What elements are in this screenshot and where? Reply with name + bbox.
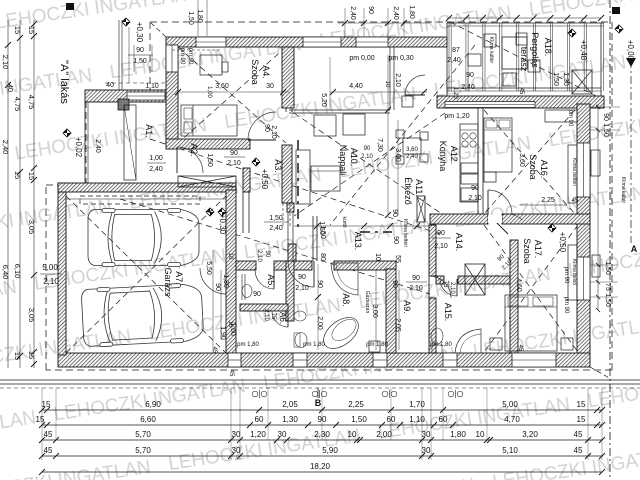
svg-text:3,05: 3,05 (27, 220, 36, 235)
svg-text:45: 45 (572, 198, 579, 204)
svg-text:10: 10 (227, 253, 233, 260)
svg-text:90: 90 (214, 283, 221, 291)
svg-text:Klíma beltéri: Klíma beltéri (571, 158, 577, 186)
svg-text:90: 90 (263, 124, 270, 132)
svg-text:90: 90 (230, 150, 238, 157)
svg-text:30: 30 (422, 446, 431, 455)
svg-text:2,40: 2,40 (461, 84, 475, 91)
svg-text:2,30: 2,30 (314, 430, 330, 439)
svg-text:90: 90 (391, 209, 398, 217)
svg-text:90: 90 (264, 251, 270, 258)
svg-text:1,00: 1,00 (206, 86, 212, 98)
svg-text:1,50: 1,50 (604, 293, 611, 307)
svg-text:pm 90: pm 90 (563, 267, 569, 284)
svg-text:1,00: 1,00 (149, 155, 163, 162)
svg-text:1,60: 1,60 (229, 322, 236, 336)
svg-text:Klíma kültér: Klíma kültér (620, 177, 626, 204)
svg-text:30: 30 (232, 446, 241, 455)
svg-text:75: 75 (270, 313, 276, 320)
svg-text:pm 90: pm 90 (179, 48, 185, 65)
svg-text:5,90: 5,90 (322, 446, 338, 455)
svg-text:90: 90 (318, 415, 327, 424)
svg-text:Klíma belső: Klíma belső (571, 259, 577, 285)
svg-text:15: 15 (27, 172, 36, 180)
svg-text:1,10: 1,10 (145, 83, 159, 90)
svg-text:2,10: 2,10 (449, 282, 455, 294)
svg-text:90: 90 (253, 291, 261, 298)
svg-text:30: 30 (278, 430, 287, 439)
svg-text:5,50: 5,50 (205, 261, 212, 275)
svg-text:1,50: 1,50 (604, 261, 611, 275)
svg-text:2,10: 2,10 (295, 285, 309, 292)
svg-text:Szoba: Szoba (528, 154, 538, 180)
svg-text:1,50: 1,50 (318, 221, 325, 235)
svg-text:Szoba: Szoba (250, 59, 260, 85)
svg-text:2,40: 2,40 (94, 139, 101, 153)
svg-text:5,00: 5,00 (502, 400, 518, 409)
svg-text:A: A (631, 244, 638, 254)
svg-text:+0,30: +0,30 (135, 22, 144, 43)
svg-text:10: 10 (384, 81, 390, 88)
svg-text:Pergolás: Pergolás (530, 32, 540, 68)
svg-text:2,10: 2,10 (361, 154, 373, 160)
svg-text:A6.: A6. (278, 312, 287, 324)
svg-text:2,10: 2,10 (43, 277, 59, 286)
svg-text:5,70: 5,70 (135, 446, 151, 455)
svg-text:A15.: A15. (443, 303, 453, 322)
svg-text:+0,30: +0,30 (218, 214, 227, 235)
svg-text:2,10: 2,10 (409, 285, 423, 292)
svg-text:2,05: 2,05 (394, 318, 401, 332)
svg-text:6,10: 6,10 (13, 264, 22, 279)
svg-text:90: 90 (412, 275, 420, 282)
svg-text:75: 75 (604, 283, 611, 291)
svg-text:7,30: 7,30 (376, 138, 383, 152)
svg-text:45: 45 (44, 430, 53, 439)
svg-text:90: 90 (437, 230, 445, 237)
svg-text:Étkező: Étkező (403, 177, 413, 205)
svg-text:terasz: terasz (519, 47, 529, 72)
svg-text:18,20: 18,20 (310, 462, 331, 471)
svg-text:45: 45 (211, 347, 217, 354)
svg-text:1,50: 1,50 (187, 11, 194, 25)
svg-text:3,60: 3,60 (406, 147, 418, 153)
svg-text:15: 15 (577, 415, 586, 424)
svg-text:2,40: 2,40 (149, 166, 163, 173)
svg-text:10: 10 (374, 253, 381, 261)
svg-text:pm 1,20: pm 1,20 (444, 113, 469, 120)
svg-text:5,20: 5,20 (320, 93, 327, 107)
svg-text:1,90: 1,90 (219, 326, 226, 340)
svg-text:A2.: A2. (189, 143, 199, 157)
svg-text:45: 45 (518, 88, 524, 95)
svg-text:3,20: 3,20 (522, 430, 538, 439)
svg-text:15: 15 (13, 26, 22, 34)
svg-text:2,10: 2,10 (1, 55, 10, 70)
svg-text:Szoba: Szoba (522, 238, 532, 264)
svg-text:60: 60 (439, 415, 448, 424)
svg-text:1,50: 1,50 (133, 58, 147, 65)
svg-text:1,30: 1,30 (282, 415, 298, 424)
svg-text:5,00: 5,00 (42, 263, 58, 272)
svg-text:2,25: 2,25 (541, 197, 555, 204)
svg-text:2,40: 2,40 (447, 57, 461, 64)
svg-text:1,50: 1,50 (269, 215, 283, 222)
svg-text:A11.: A11. (414, 179, 424, 197)
svg-text:80: 80 (319, 253, 326, 261)
svg-text:2,40: 2,40 (1, 140, 10, 155)
svg-text:30: 30 (422, 430, 431, 439)
svg-text:3,60: 3,60 (215, 83, 229, 90)
svg-text:3,00: 3,00 (371, 304, 378, 318)
svg-text:15: 15 (27, 351, 36, 359)
svg-text:2,40: 2,40 (349, 6, 356, 20)
svg-text:2,10: 2,10 (468, 195, 482, 202)
svg-text:A14.: A14. (454, 233, 464, 252)
svg-text:87: 87 (452, 47, 460, 54)
svg-text:2,10: 2,10 (256, 250, 262, 262)
svg-text:90: 90 (602, 113, 609, 121)
svg-text:A17.: A17. (533, 240, 543, 259)
svg-text:15: 15 (42, 400, 51, 409)
svg-text:45: 45 (44, 446, 53, 455)
svg-text:pm 1,80: pm 1,80 (366, 342, 388, 348)
svg-text:A4.: A4. (261, 65, 271, 79)
svg-text:pm 90: pm 90 (187, 48, 193, 65)
svg-text:1,70: 1,70 (409, 400, 425, 409)
svg-text:15: 15 (27, 26, 36, 34)
svg-text:3,05: 3,05 (27, 308, 36, 323)
svg-text:1,50: 1,50 (351, 415, 367, 424)
svg-text:90: 90 (471, 185, 479, 192)
svg-text:5,10: 5,10 (502, 446, 518, 455)
svg-text:90: 90 (298, 274, 306, 281)
svg-text:90: 90 (466, 72, 474, 79)
svg-text:pm 1,80: pm 1,80 (237, 342, 259, 348)
svg-text:1,80: 1,80 (408, 5, 415, 19)
svg-text:6,40: 6,40 (1, 265, 10, 280)
svg-text:45: 45 (574, 430, 583, 439)
svg-text:45: 45 (517, 345, 523, 352)
svg-text:1,10: 1,10 (409, 415, 425, 424)
svg-text:3,60: 3,60 (518, 153, 525, 167)
svg-text:4,60: 4,60 (515, 278, 522, 292)
svg-text:60: 60 (255, 415, 264, 424)
svg-text:1,30: 1,30 (562, 72, 569, 86)
svg-text:10: 10 (348, 430, 357, 439)
svg-text:Gázkazán: Gázkazán (364, 291, 370, 314)
svg-text:90: 90 (316, 280, 323, 288)
svg-text:1,20: 1,20 (452, 87, 458, 99)
svg-text:4,40: 4,40 (349, 83, 363, 90)
svg-text:Konyha: Konyha (438, 141, 448, 172)
svg-text:A1.: A1. (144, 124, 154, 138)
svg-text:+0,00: +0,00 (626, 40, 635, 61)
svg-text:Garázs: Garázs (163, 267, 173, 297)
svg-text:2,05: 2,05 (282, 400, 298, 409)
svg-text:1,80: 1,80 (450, 430, 466, 439)
svg-text:4,75: 4,75 (13, 97, 22, 112)
svg-text:A18.: A18. (543, 38, 553, 57)
svg-text:+0,50: +0,50 (558, 232, 567, 253)
svg-text:15: 15 (13, 352, 22, 360)
svg-text:pm 1,80: pm 1,80 (303, 342, 325, 348)
svg-text:kürtő: kürtő (341, 216, 347, 227)
svg-text:5,70: 5,70 (135, 430, 151, 439)
svg-text:2,10: 2,10 (263, 309, 269, 321)
svg-text:A3.: A3. (273, 159, 283, 173)
svg-text:2,10: 2,10 (270, 125, 277, 139)
svg-text:A10.: A10. (349, 148, 359, 167)
svg-text:B: B (315, 398, 322, 408)
svg-text:1,50: 1,50 (206, 153, 213, 167)
svg-text:A13.: A13. (353, 232, 363, 251)
svg-text:90: 90 (391, 280, 398, 288)
svg-text:90: 90 (364, 146, 371, 152)
svg-text:2,25: 2,25 (348, 400, 364, 409)
svg-text:6,90: 6,90 (145, 400, 161, 409)
svg-text:15: 15 (13, 171, 22, 179)
svg-text:90: 90 (136, 47, 144, 54)
svg-text:1,20: 1,20 (250, 430, 266, 439)
svg-text:A5.: A5. (266, 274, 276, 288)
svg-text:75: 75 (442, 281, 448, 288)
svg-text:45: 45 (574, 446, 583, 455)
svg-text:15: 15 (36, 415, 45, 424)
svg-text:pm 0,00: pm 0,00 (349, 55, 374, 62)
svg-text:4,75: 4,75 (27, 95, 36, 110)
svg-text:"A" lakás: "A" lakás (58, 60, 70, 104)
svg-text:6,60: 6,60 (140, 415, 156, 424)
svg-text:90: 90 (392, 236, 399, 244)
svg-text:60: 60 (387, 415, 396, 424)
svg-text:3,00: 3,00 (394, 148, 401, 162)
svg-text:15: 15 (577, 400, 586, 409)
svg-text:pm 90: pm 90 (567, 110, 573, 127)
svg-text:2,10: 2,10 (394, 73, 401, 87)
svg-text:Klíma beltéri: Klíma beltéri (402, 219, 408, 247)
svg-text:A8.: A8. (341, 293, 351, 307)
svg-text:2,40: 2,40 (269, 225, 283, 232)
svg-text:40: 40 (6, 84, 13, 92)
svg-text:A12.: A12. (449, 146, 459, 165)
svg-text:1,50: 1,50 (552, 72, 559, 86)
svg-text:pm 90: pm 90 (563, 297, 569, 314)
svg-text:2,00: 2,00 (376, 430, 392, 439)
svg-text:2,10: 2,10 (434, 243, 448, 250)
svg-text:+0,48: +0,48 (579, 40, 588, 61)
svg-text:2,10: 2,10 (227, 160, 241, 167)
svg-text:pm 0,30: pm 0,30 (388, 55, 413, 62)
svg-text:2,00: 2,00 (316, 316, 323, 330)
svg-text:10: 10 (476, 430, 485, 439)
svg-text:+0,02: +0,02 (74, 137, 83, 158)
svg-text:Nappali: Nappali (338, 145, 348, 176)
svg-text:30: 30 (232, 430, 241, 439)
svg-text:45: 45 (228, 370, 234, 377)
svg-text:2,40: 2,40 (392, 6, 399, 20)
svg-text:A9.: A9. (402, 300, 412, 314)
svg-text:2,40: 2,40 (406, 154, 418, 160)
svg-text:A16.: A16. (539, 160, 549, 179)
svg-text:A7.: A7. (174, 271, 184, 285)
svg-text:4,70: 4,70 (504, 415, 520, 424)
svg-text:pm 1,80: pm 1,80 (430, 342, 452, 348)
svg-text:30: 30 (266, 83, 274, 90)
svg-text:1,30: 1,30 (222, 274, 229, 288)
svg-text:1,80: 1,80 (196, 9, 203, 23)
svg-text:90: 90 (367, 6, 374, 14)
svg-text:+0,50: +0,50 (260, 169, 269, 190)
svg-text:Klíma kültér: Klíma kültér (488, 37, 494, 64)
